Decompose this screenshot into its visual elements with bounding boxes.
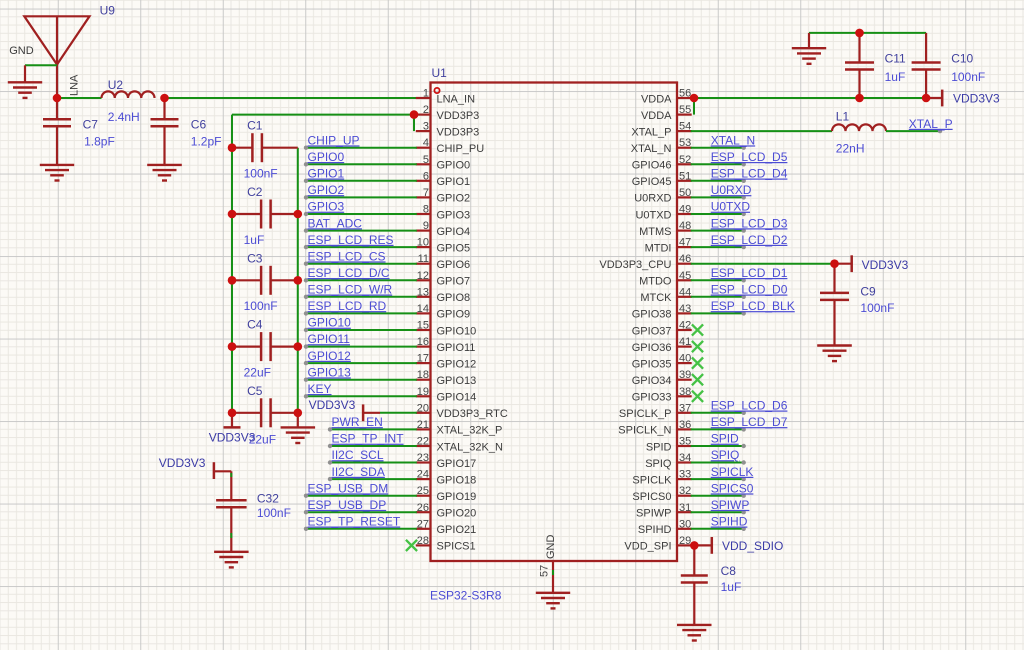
svg-text:SPICLK_P: SPICLK_P <box>619 408 672 420</box>
net label ESP_LCD_D1 (pin 45) <box>691 266 788 282</box>
svg-text:GPIO45: GPIO45 <box>632 176 672 188</box>
svg-text:56: 56 <box>679 88 691 100</box>
U1 pin 22 XTAL_32K_N <box>416 436 503 454</box>
U1 pin 30 SPIHD <box>638 518 692 536</box>
net label XTAL_N (pin 53) <box>691 133 755 150</box>
no-connect pin 39 <box>692 374 703 385</box>
svg-text:L1: L1 <box>836 110 850 124</box>
svg-text:VDD3V3: VDD3V3 <box>862 258 909 272</box>
svg-text:18: 18 <box>417 369 429 381</box>
svg-text:GPIO11: GPIO11 <box>437 342 476 354</box>
U1 pin 54 XTAL_P <box>631 121 691 139</box>
net label GPIO0 (pin 5) <box>304 150 417 167</box>
svg-text:GPIO13: GPIO13 <box>308 365 352 379</box>
junction pin56 VDDA <box>690 94 699 103</box>
U1 pin 16 GPIO11 <box>416 336 476 354</box>
capacitor C32 <box>216 471 247 552</box>
svg-text:C5: C5 <box>247 384 263 398</box>
svg-text:38: 38 <box>679 386 691 398</box>
svg-text:VDDA: VDDA <box>641 110 672 122</box>
svg-text:16: 16 <box>417 336 429 348</box>
U1 pin 48 MTMS <box>639 220 692 238</box>
U1 pin 29 VDD_SPI <box>624 535 691 553</box>
net label SPIQ (pin 34) <box>691 448 746 464</box>
ground (C8) <box>677 624 712 626</box>
net label GPIO12 (pin 17) <box>304 349 417 366</box>
wire U2 to pin 1 LNA_IN <box>165 97 417 99</box>
svg-text:C8: C8 <box>721 564 737 578</box>
svg-text:PWR_EN: PWR_EN <box>332 415 383 429</box>
svg-text:GPIO9: GPIO9 <box>437 309 471 321</box>
U1 pin 40 GPIO35 <box>632 353 692 371</box>
svg-text:ESP_LCD_D4: ESP_LCD_D4 <box>711 167 788 181</box>
wire XTAL_P pin 54 to L1 <box>691 130 832 132</box>
svg-text:9: 9 <box>423 220 429 232</box>
net label ESP_LCD_CS (pin 11) <box>304 249 417 266</box>
svg-text:37: 37 <box>679 402 691 414</box>
svg-text:SPID: SPID <box>711 432 739 446</box>
svg-text:GPIO33: GPIO33 <box>632 392 672 404</box>
net label ESP_LCD_BLK (pin 43) <box>691 299 795 315</box>
svg-text:GPIO20: GPIO20 <box>437 508 477 520</box>
svg-text:CHIP_UP: CHIP_UP <box>308 133 360 147</box>
no-connect pin 41 <box>692 341 703 352</box>
svg-text:XTAL_32K_N: XTAL_32K_N <box>437 441 504 453</box>
U1 pin 9 GPIO4 <box>416 220 470 238</box>
junction pin46 VDD3P3_CPU <box>830 259 839 268</box>
svg-text:ESP_LCD_D7: ESP_LCD_D7 <box>711 415 788 429</box>
svg-text:31: 31 <box>679 502 691 514</box>
svg-text:GPIO3: GPIO3 <box>437 209 471 221</box>
junction pin29 VDD_SPI <box>690 541 699 550</box>
svg-text:U0RXD: U0RXD <box>634 193 671 205</box>
ground (cap bank) <box>281 413 316 443</box>
capacitor C1 <box>232 133 298 162</box>
svg-text:22: 22 <box>417 436 429 448</box>
net label U0TXD (pin 49) <box>691 200 751 217</box>
junction C11 bottom <box>855 94 864 103</box>
net label U0RXD (pin 50) <box>691 183 752 199</box>
net label ESP_LCD_D4 (pin 51) <box>691 167 788 184</box>
svg-text:21: 21 <box>417 419 429 431</box>
svg-text:29: 29 <box>679 535 691 547</box>
net label SPICLK (pin 33) <box>691 465 754 482</box>
svg-text:C2: C2 <box>247 185 263 199</box>
svg-text:24: 24 <box>417 469 429 481</box>
svg-text:C11: C11 <box>885 52 906 66</box>
svg-text:27: 27 <box>417 518 429 530</box>
U1 pin 8 GPIO3 <box>416 204 470 222</box>
svg-text:SPICLK: SPICLK <box>711 465 754 479</box>
svg-text:GPIO4: GPIO4 <box>437 226 471 238</box>
svg-text:1: 1 <box>423 88 429 100</box>
svg-text:GPIO10: GPIO10 <box>308 316 352 330</box>
U1 pin 11 GPIO6 <box>416 253 470 271</box>
svg-text:2: 2 <box>423 104 429 116</box>
U1 pin 10 GPIO5 <box>416 237 470 255</box>
svg-text:U0RXD: U0RXD <box>711 183 752 197</box>
svg-text:VDD3V3: VDD3V3 <box>309 398 356 412</box>
net label SPIHD (pin 30) <box>691 515 748 532</box>
net label ESP_LCD_D3 (pin 48) <box>691 216 788 233</box>
svg-text:10: 10 <box>417 237 429 249</box>
svg-text:MTMS: MTMS <box>639 226 671 238</box>
svg-text:MTDI: MTDI <box>645 242 672 254</box>
U1 pin 7 GPIO2 <box>416 187 470 205</box>
no-connect pin 42 <box>692 324 703 335</box>
svg-text:VDD3P3: VDD3P3 <box>437 126 480 138</box>
svg-text:26: 26 <box>417 502 429 514</box>
svg-text:C3: C3 <box>247 251 263 265</box>
junction C3 left <box>228 276 237 285</box>
svg-text:ESP_LCD_D/C: ESP_LCD_D/C <box>308 266 390 280</box>
wire pin2 to pin3 <box>413 115 415 132</box>
capacitor C5 <box>232 398 298 427</box>
U1 pin 38 GPIO33 <box>632 386 692 404</box>
U1 pin 2 VDD3P3 <box>416 104 479 122</box>
U1 pin 50 U0RXD <box>634 187 691 205</box>
junction C1 left <box>228 143 237 152</box>
svg-text:GPIO36: GPIO36 <box>632 342 672 354</box>
net label GPIO13 (pin 18) <box>304 365 417 382</box>
U1 pin 31 SPIWP <box>636 502 692 520</box>
svg-text:ESP_LCD_D6: ESP_LCD_D6 <box>711 399 788 413</box>
svg-text:C7: C7 <box>83 118 99 132</box>
svg-text:46: 46 <box>679 253 691 265</box>
wire pin46 to VDD3V3 <box>691 263 835 265</box>
net label ESP_USB_DM (pin 25) <box>304 481 417 498</box>
net label ESP_LCD_D7 (pin 36) <box>691 415 788 431</box>
svg-text:22nH: 22nH <box>836 142 865 156</box>
U1 pin 33 SPICLK <box>632 469 691 487</box>
svg-text:SPICLK: SPICLK <box>632 474 672 486</box>
svg-text:100nF: 100nF <box>244 167 278 181</box>
svg-text:GPIO17: GPIO17 <box>437 458 477 470</box>
svg-text:30: 30 <box>679 518 691 530</box>
svg-text:SPIHD: SPIHD <box>711 515 748 529</box>
svg-text:GPIO18: GPIO18 <box>437 474 477 486</box>
svg-text:45: 45 <box>679 270 691 282</box>
U1 pin 3 VDD3P3 <box>416 121 479 139</box>
U1 pin 46 VDD3P3_CPU <box>599 253 691 271</box>
svg-text:33: 33 <box>679 469 691 481</box>
U1 pin 41 GPIO36 <box>632 336 692 354</box>
svg-text:SPICS0: SPICS0 <box>711 481 754 495</box>
svg-text:GPIO34: GPIO34 <box>632 375 672 387</box>
svg-text:U2: U2 <box>108 78 124 92</box>
svg-text:4: 4 <box>423 137 429 149</box>
svg-text:23: 23 <box>417 452 429 464</box>
U1 pin 13 GPIO8 <box>416 286 470 304</box>
U1 pin 34 SPIQ <box>645 452 691 470</box>
net label KEY (pin 19) <box>304 382 417 398</box>
svg-text:VDD3P3_CPU: VDD3P3_CPU <box>599 259 671 271</box>
svg-text:GPIO35: GPIO35 <box>632 358 672 370</box>
U1 pin 55 VDDA <box>641 104 692 122</box>
net label ESP_LCD_D2 (pin 47) <box>691 233 788 250</box>
wire left rail <box>231 115 233 413</box>
U1 pin 57 GND <box>539 535 558 593</box>
svg-text:5: 5 <box>423 154 429 166</box>
svg-text:U0TXD: U0TXD <box>711 200 751 214</box>
svg-text:VDD_SPI: VDD_SPI <box>624 541 671 553</box>
net label GPIO10 (pin 15) <box>304 316 417 332</box>
net label ESP_TP_RESET (pin 27) <box>304 515 417 532</box>
svg-text:GPIO5: GPIO5 <box>437 242 471 254</box>
svg-text:1uF: 1uF <box>885 70 906 84</box>
net label ESP_LCD_RES (pin 10) <box>304 233 417 250</box>
ground (antenna) <box>8 65 42 98</box>
ground (C7) <box>40 164 74 166</box>
junction C4 left <box>228 342 237 351</box>
svg-text:VDD3P3_RTC: VDD3P3_RTC <box>437 408 508 420</box>
svg-text:40: 40 <box>679 353 691 365</box>
U1 pin 53 XTAL_N <box>631 137 692 155</box>
wire C11/C10 top <box>809 32 926 34</box>
svg-text:ESP_TP_INT: ESP_TP_INT <box>332 432 405 446</box>
svg-text:1uF: 1uF <box>244 233 265 247</box>
svg-text:47: 47 <box>679 237 691 249</box>
op-amp U1 ESP32-S3R8 body <box>431 83 678 562</box>
U1 pin 19 GPIO14 <box>416 386 476 404</box>
capacitor C8 <box>681 545 708 625</box>
svg-text:25: 25 <box>417 485 429 497</box>
svg-text:13: 13 <box>417 286 429 298</box>
U1 pin 23 GPIO17 <box>416 452 476 470</box>
inductor L1 <box>832 124 886 131</box>
svg-text:GPIO8: GPIO8 <box>437 292 471 304</box>
net label ESP_LCD_D6 (pin 37) <box>691 399 788 415</box>
net label GPIO3 (pin 8) <box>304 200 417 217</box>
svg-text:GPIO21: GPIO21 <box>437 524 477 536</box>
svg-text:SPICS1: SPICS1 <box>437 541 476 553</box>
svg-text:GPIO12: GPIO12 <box>308 349 352 363</box>
svg-text:44: 44 <box>679 286 691 298</box>
svg-text:U9: U9 <box>100 4 116 18</box>
junction antenna/C7 <box>53 94 62 103</box>
ground (C6) <box>147 164 182 166</box>
svg-text:32: 32 <box>679 485 691 497</box>
svg-text:C4: C4 <box>247 318 263 332</box>
svg-text:52: 52 <box>679 154 691 166</box>
svg-text:BAT_ADC: BAT_ADC <box>308 216 363 230</box>
svg-text:SPICS0: SPICS0 <box>632 491 671 503</box>
svg-text:35: 35 <box>679 436 691 448</box>
svg-text:LNA_IN: LNA_IN <box>437 93 476 105</box>
pin1 marker ring <box>434 88 439 93</box>
svg-text:C1: C1 <box>247 119 263 133</box>
svg-text:GPIO12: GPIO12 <box>437 358 477 370</box>
svg-text:ESP_USB_DM: ESP_USB_DM <box>308 481 389 495</box>
capacitor C6 <box>151 98 179 165</box>
svg-text:C32: C32 <box>257 492 279 506</box>
junction C2 right <box>294 210 303 219</box>
svg-text:ESP_TP_RESET: ESP_TP_RESET <box>308 515 401 529</box>
ground (top) <box>792 33 826 64</box>
svg-text:GND: GND <box>9 45 34 57</box>
U1 pin 12 GPIO7 <box>416 270 470 288</box>
svg-text:42: 42 <box>679 320 691 332</box>
svg-text:C9: C9 <box>860 284 876 298</box>
svg-text:GPIO37: GPIO37 <box>632 325 672 337</box>
U1 pin 32 SPICS0 <box>632 485 691 503</box>
svg-text:GPIO0: GPIO0 <box>308 150 345 164</box>
svg-text:VDD3V3: VDD3V3 <box>209 431 256 445</box>
U1 pin 1 LNA_IN <box>416 88 475 106</box>
svg-text:GPIO19: GPIO19 <box>437 491 477 503</box>
net label SPID (pin 35) <box>691 432 746 448</box>
svg-text:7: 7 <box>423 187 429 199</box>
svg-text:2.4nH: 2.4nH <box>108 110 140 124</box>
svg-text:II2C_SCL: II2C_SCL <box>332 448 384 462</box>
capacitor C3 <box>232 266 298 295</box>
svg-text:MTDO: MTDO <box>639 276 672 288</box>
svg-text:GPIO2: GPIO2 <box>437 193 471 205</box>
no-connect pin 40 <box>692 358 703 369</box>
svg-text:GPIO10: GPIO10 <box>437 325 477 337</box>
svg-text:ESP_LCD_RES: ESP_LCD_RES <box>308 233 394 247</box>
power flag VDD3V3 (pin56) <box>926 90 942 107</box>
junction C5 right <box>294 409 303 418</box>
svg-text:14: 14 <box>417 303 429 315</box>
power flag VDD3V3 (pin 20) <box>363 404 417 421</box>
svg-text:100nF: 100nF <box>860 301 894 315</box>
no-connect pin 38 <box>692 391 703 402</box>
svg-text:KEY: KEY <box>308 382 332 396</box>
svg-text:50: 50 <box>679 187 691 199</box>
U1 pin 56 VDDA <box>641 88 692 106</box>
svg-text:55: 55 <box>679 104 691 116</box>
net label ESP_LCD_D0 (pin 44) <box>691 283 788 299</box>
ground (C9) <box>817 344 852 346</box>
svg-text:15: 15 <box>417 320 429 332</box>
capacitor C7 <box>43 98 71 165</box>
svg-text:GPIO11: GPIO11 <box>308 332 351 346</box>
svg-text:VDD_SDIO: VDD_SDIO <box>722 539 783 553</box>
svg-text:GND: GND <box>545 535 557 560</box>
U1 pin 28 SPICS1 <box>416 535 476 553</box>
junction C4 right <box>294 342 303 351</box>
svg-text:VDD3V3: VDD3V3 <box>953 92 1000 106</box>
net label SPIWP (pin 31) <box>691 498 750 515</box>
net label ESP_LCD_D/C (pin 12) <box>304 266 417 282</box>
wire VDD3P3 rail top <box>232 114 414 116</box>
U1 pin 21 XTAL_32K_P <box>416 419 503 437</box>
svg-text:GPIO6: GPIO6 <box>437 259 471 271</box>
svg-text:C6: C6 <box>191 118 207 132</box>
svg-text:XTAL_32K_P: XTAL_32K_P <box>437 425 503 437</box>
junction C10 bottom <box>922 94 931 103</box>
svg-text:34: 34 <box>679 452 691 464</box>
net label GPIO1 (pin 6) <box>304 167 417 184</box>
net label II2C_SCL (pin 23) <box>328 448 417 464</box>
svg-text:ESP_LCD_D3: ESP_LCD_D3 <box>711 216 788 230</box>
net label SPICS0 (pin 32) <box>691 481 754 498</box>
svg-text:1uF: 1uF <box>721 580 742 594</box>
U1 pin 15 GPIO10 <box>416 320 476 338</box>
svg-text:36: 36 <box>679 419 691 431</box>
svg-text:VDD3V3: VDD3V3 <box>159 456 206 470</box>
svg-text:GPIO7: GPIO7 <box>437 276 471 288</box>
svg-text:GPIO0: GPIO0 <box>437 160 471 172</box>
svg-text:SPIHD: SPIHD <box>638 524 672 536</box>
junction C3 right <box>294 276 303 285</box>
capacitor C2 <box>232 200 298 229</box>
svg-text:ESP32-S3R8: ESP32-S3R8 <box>430 589 502 603</box>
U1 pin 36 SPICLK_N <box>618 419 691 437</box>
U1 pin 51 GPIO45 <box>632 170 692 188</box>
capacitor C11 <box>845 33 874 98</box>
svg-text:U1: U1 <box>432 66 448 80</box>
svg-text:II2C_SDA: II2C_SDA <box>332 465 385 479</box>
svg-text:SPIQ: SPIQ <box>711 448 740 462</box>
svg-text:GPIO14: GPIO14 <box>437 392 477 404</box>
wire antenna to ground <box>25 64 57 66</box>
U1 pin 18 GPIO13 <box>416 369 476 387</box>
net label CHIP_UP (pin 4) <box>304 133 417 150</box>
svg-text:LNA: LNA <box>69 74 81 96</box>
svg-text:ESP_USB_DP: ESP_USB_DP <box>308 498 387 512</box>
net label BAT_ADC (pin 9) <box>304 216 417 233</box>
svg-text:VDDA: VDDA <box>641 93 672 105</box>
svg-text:MTCK: MTCK <box>640 292 672 304</box>
svg-text:49: 49 <box>679 204 691 216</box>
svg-text:100nF: 100nF <box>244 299 278 313</box>
U1 pin 24 GPIO18 <box>416 469 476 487</box>
capacitor C4 <box>232 332 298 361</box>
svg-text:ESP_LCD_D5: ESP_LCD_D5 <box>711 150 788 164</box>
inductor U2 <box>102 91 155 98</box>
svg-text:ESP_LCD_BLK: ESP_LCD_BLK <box>711 299 795 313</box>
svg-text:GPIO46: GPIO46 <box>632 160 672 172</box>
no-connect pin 28 <box>406 540 417 551</box>
svg-text:XTAL_N: XTAL_N <box>711 133 755 147</box>
svg-text:U0TXD: U0TXD <box>635 209 671 221</box>
net label ESP_TP_INT (pin 22) <box>328 432 417 448</box>
svg-text:XTAL_N: XTAL_N <box>631 143 672 155</box>
svg-text:GPIO3: GPIO3 <box>308 200 345 214</box>
svg-text:100nF: 100nF <box>257 506 291 520</box>
svg-text:43: 43 <box>679 303 691 315</box>
U1 pin 5 GPIO0 <box>416 154 470 172</box>
U1 pin 39 GPIO34 <box>632 369 692 387</box>
U1 pin 4 CHIP_PU <box>416 137 484 155</box>
svg-text:28: 28 <box>417 535 429 547</box>
svg-text:100nF: 100nF <box>951 70 985 84</box>
net label ESP_LCD_W/R (pin 13) <box>304 283 417 299</box>
junction C11 top <box>855 29 864 38</box>
U1 pin 42 GPIO37 <box>632 320 692 338</box>
U1 pin 47 MTDI <box>645 237 692 255</box>
U1 pin 6 GPIO1 <box>416 170 470 188</box>
U1 pin 37 SPICLK_P <box>619 402 692 420</box>
capacitor C10 <box>912 33 941 98</box>
svg-text:SPIWP: SPIWP <box>711 498 750 512</box>
svg-text:GPIO1: GPIO1 <box>437 176 471 188</box>
U1 pin 17 GPIO12 <box>416 353 476 371</box>
net label II2C_SDA (pin 24) <box>328 465 417 482</box>
antenna U9 <box>24 16 89 98</box>
svg-text:17: 17 <box>417 353 429 365</box>
svg-text:SPIWP: SPIWP <box>636 508 671 520</box>
svg-text:GPIO38: GPIO38 <box>632 309 672 321</box>
net label ESP_USB_DP (pin 26) <box>304 498 417 515</box>
junction C2 left <box>228 210 237 219</box>
svg-text:48: 48 <box>679 220 691 232</box>
svg-text:XTAL_P: XTAL_P <box>631 126 671 138</box>
junction pin2 VDD3P3 <box>410 110 419 119</box>
net label GPIO11 (pin 16) <box>304 332 417 349</box>
